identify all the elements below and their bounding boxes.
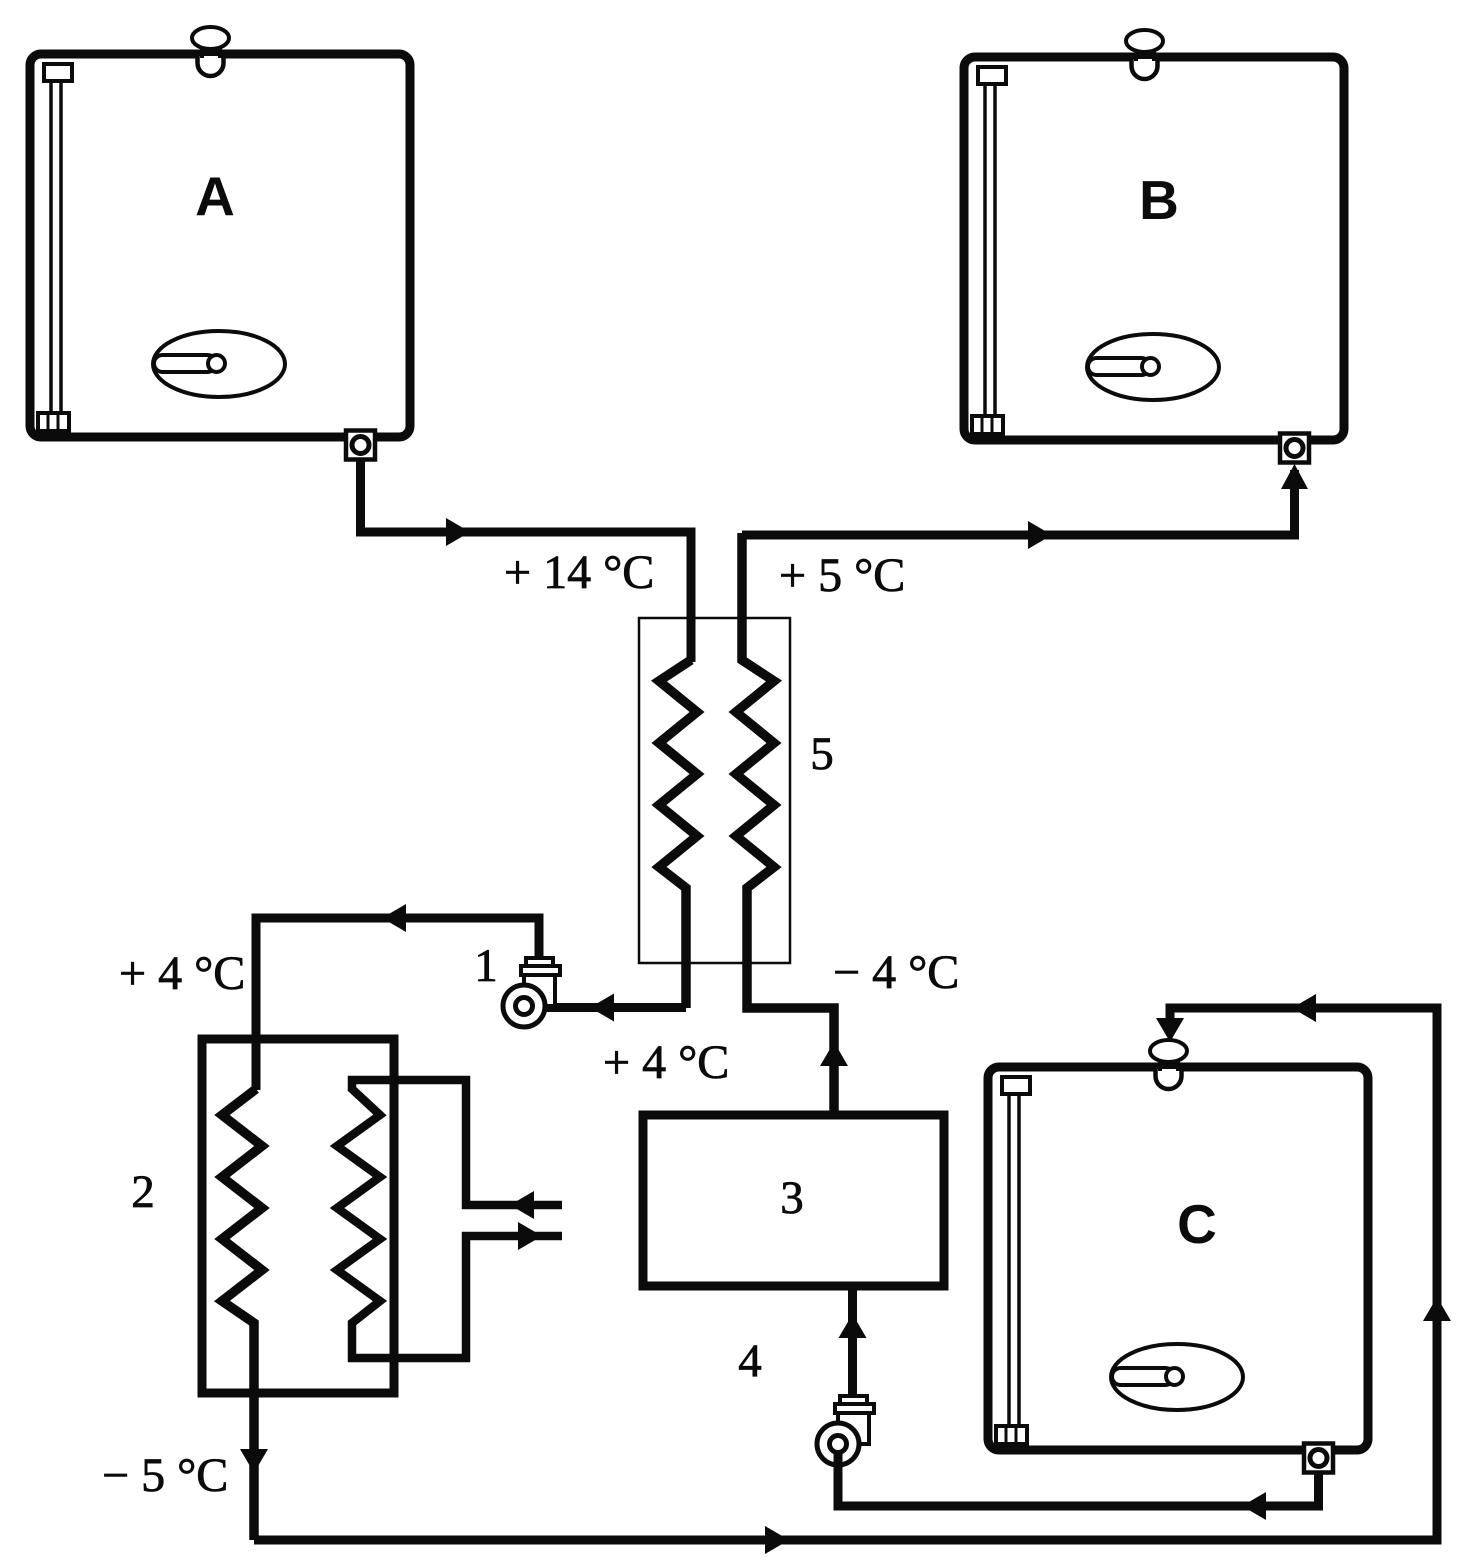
unit 3 box — [643, 1115, 944, 1286]
arrow down into tank C nozzle — [1156, 1018, 1184, 1042]
svg-text:+ 14 °C: + 14 °C — [504, 546, 654, 599]
svg-text:B: B — [1139, 169, 1179, 231]
svg-text:C: C — [1177, 1193, 1217, 1255]
pump 4 — [817, 1396, 874, 1465]
tank C — [988, 1040, 1368, 1473]
arrow toward pump 4 — [1242, 1492, 1266, 1520]
heat exchanger 2 shell — [202, 1039, 394, 1393]
arrow up into tank B port — [1281, 464, 1308, 489]
heat exchanger 2 primary coil and -5 C drop line — [222, 1089, 262, 1540]
arrow down on -5 C line — [240, 1449, 268, 1473]
svg-text:− 5 °C: − 5 °C — [102, 1449, 228, 1502]
svg-text:+ 4 °C: + 4 °C — [119, 947, 245, 1000]
arrow up on right riser — [1423, 1297, 1451, 1321]
arrow toward pump 1 — [590, 994, 614, 1022]
svg-text:4: 4 — [738, 1335, 762, 1387]
svg-text:− 4 °C: − 4 °C — [833, 946, 959, 999]
wire: heat exchanger 5 to tank B (+5 C line) — [742, 470, 1295, 535]
arrow up into heat exchanger 5 right coil — [820, 1042, 848, 1066]
arrow left on tank C feed line — [1292, 994, 1316, 1022]
wire: pump 1 discharge to heat exchanger 2 (+4 C line) — [256, 918, 539, 1090]
arrow on +5 C line — [1028, 521, 1052, 549]
heat exchanger 2 secondary loop — [337, 1080, 562, 1358]
wire: pump 4 to unit 3 — [848, 1287, 857, 1398]
svg-text:2: 2 — [131, 1166, 155, 1218]
svg-text:+ 4 °C: + 4 °C — [603, 1036, 729, 1089]
arrow on pump 1 discharge — [382, 904, 406, 932]
heat exchanger 5 shell — [639, 618, 790, 963]
pump 1 — [503, 958, 560, 1027]
svg-text:1: 1 — [474, 940, 498, 992]
wire: heat exchanger 5 to pump 1 (+4 C suction) — [545, 1003, 686, 1012]
arrow out of secondary loop — [518, 1222, 542, 1250]
svg-text:A: A — [195, 165, 235, 227]
svg-text:+ 5 °C: + 5 °C — [779, 549, 905, 602]
heat exchanger 5 left coil — [659, 660, 697, 1008]
wire: tank C outlet to pump 4 — [838, 1450, 1319, 1506]
arrow on +14 C line — [446, 518, 470, 546]
wire: tank A outlet to heat exchanger 5 (+14 C line) — [361, 455, 692, 662]
arrow into secondary loop — [510, 1191, 534, 1219]
tank B — [964, 30, 1344, 463]
svg-text:3: 3 — [780, 1172, 804, 1224]
svg-text:5: 5 — [810, 728, 834, 780]
heat exchanger 5 right coil with -4 C line from unit 3 — [736, 533, 834, 1115]
arrow up into unit 3 — [839, 1314, 867, 1338]
wire: -5 C brine line to tank C top — [254, 1008, 1437, 1540]
tank A — [30, 27, 410, 460]
arrow right on bottom brine line — [765, 1526, 789, 1554]
